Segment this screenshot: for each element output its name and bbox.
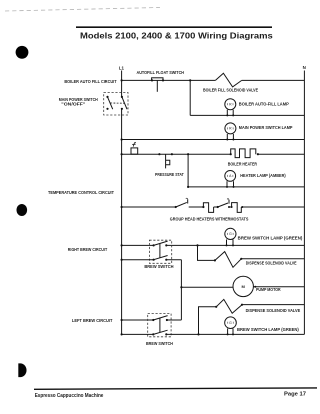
wire row D [122,153,305,155]
junction row D riser [187,153,189,155]
wire dispense left to N [242,304,304,306]
hole punch 1 [16,46,29,59]
boiler heater element [231,149,256,158]
svg-text:G: G [229,321,232,325]
pressure stat [158,153,173,168]
wire row G2 [122,259,182,261]
junction dispense left [197,333,199,335]
svg-text:BREW SWITCH LAMP (GREEN): BREW SWITCH LAMP (GREEN) [237,327,299,332]
svg-text:N: N [303,65,306,70]
svg-text:BOILER AUTO FILL CIRCUIT: BOILER AUTO FILL CIRCUIT [64,79,117,84]
main power switch left pole [106,96,112,110]
svg-text:MAIN POWER SWITCH LAMP: MAIN POWER SWITCH LAMP [239,125,293,130]
svg-text:G: G [229,232,232,236]
group head heater 2 [232,203,242,213]
svg-text:A: A [229,174,232,178]
thermal limit square [131,142,138,154]
svg-text:L1: L1 [119,66,125,71]
svg-text:R: R [229,127,232,131]
wire row C [122,139,305,141]
group head heater 1 [203,203,213,213]
svg-text:TEMPERATURE CONTROL CIRCUIT: TEMPERATURE CONTROL CIRCUIT [48,190,114,195]
junction row A riser [189,79,191,81]
lamp brew switch left green [225,317,237,329]
brew switch 1 top pole [153,241,168,246]
group thermostat switch 1 [175,198,188,208]
lamp brew switch right legs [227,240,234,246]
wire row H pump [181,286,304,288]
brew switch 1 box [149,240,171,263]
junction dispense right [196,244,198,246]
heater lamp legs [227,181,234,187]
svg-text:Page 17: Page 17 [284,392,306,398]
svg-text:RIGHT BREW CIRCUIT: RIGHT BREW CIRCUIT [68,247,108,252]
brew switch 2 box [148,314,171,337]
lamp inner ticks [228,103,234,324]
brew switch 1 link [159,243,161,257]
lamp brew switch right green [225,228,236,239]
title rule [76,26,272,28]
svg-text:DISPENSE SOLENOID VALVE: DISPENSE SOLENOID VALVE [246,261,297,266]
pump motor [233,276,253,296]
hole punch 2 [17,204,28,216]
wire dispense right branch [198,245,215,260]
dispense solenoid valve right zigzag [215,252,241,268]
svg-text:HEATER LAMP (AMBER): HEATER LAMP (AMBER) [240,173,286,178]
lamp boiler auto-fill legs [227,110,233,116]
lamp boiler auto-fill [225,99,236,110]
svg-text:BREW SWITCH: BREW SWITCH [146,341,173,346]
wire dispense right to N [241,258,304,260]
svg-text:R: R [229,103,232,107]
node L1 rail [121,71,123,335]
brew switch 2 link [159,318,161,333]
page top dashed separator [5,8,160,12]
hole punch 3 [18,363,26,377]
svg-text:Models 2100, 2400 & 1700 Wirin: Models 2100, 2400 & 1700 Wiring Diagrams [80,31,273,41]
svg-text:BREW SWITCH LAMP (GREEN): BREW SWITCH LAMP (GREEN) [238,235,303,240]
svg-text:"ON/OFF": "ON/OFF" [61,102,85,107]
svg-text:Espresso Cappuccino Machine: Espresso Cappuccino Machine [35,393,104,399]
autofill float switch [151,78,164,92]
main power switch right pole [121,96,127,110]
main power switch link [110,102,124,104]
svg-text:BOILER AUTO-FILL LAMP: BOILER AUTO-FILL LAMP [239,102,289,107]
svg-text:PUMP MOTOR: PUMP MOTOR [256,287,281,292]
boiler fill solenoid valve zigzag [215,73,241,87]
svg-text:LEFT BREW CIRCUIT: LEFT BREW CIRCUIT [72,318,113,323]
wire row A boiler auto fill circuit [122,79,305,81]
wire rail E group heaters [122,206,305,208]
svg-text:BOILER FILL SOLENOID VALVE: BOILER FILL SOLENOID VALVE [203,88,258,93]
wire row J2 [122,333,305,335]
svg-text:BOILER HEATER: BOILER HEATER [228,162,257,167]
wire row J1 left brew feed [122,319,182,321]
wire row G1 right brew feed [122,244,305,246]
svg-text:GROUP HEAD HEATERS W/THERMOSTA: GROUP HEAD HEATERS W/THERMOSTATS [170,217,249,222]
node N rail [303,71,305,335]
brew switch 2 bottom pole [152,330,167,335]
wire riser rowD to rowF [187,154,189,187]
wire row F [188,186,304,188]
lamp main power switch legs [227,134,233,140]
lamp brew switch left legs [228,329,233,335]
svg-text:BREW SWITCH: BREW SWITCH [144,264,173,269]
wire riser G2 to J1 [180,260,182,320]
lamp main power switch [225,123,236,134]
footer rule [34,388,317,389]
svg-text:M: M [242,284,246,289]
main power switch box [104,93,128,116]
brew switch 1 bottom pole [153,256,168,261]
wire row B [190,114,304,116]
svg-text:DISPENSE SOLENOID VALVE: DISPENSE SOLENOID VALVE [246,308,301,313]
brew switch 2 top pole [152,316,168,322]
wire dispense left branch [199,307,217,335]
svg-text:AUTOFILL FLOAT SWITCH: AUTOFILL FLOAT SWITCH [137,70,185,75]
dispense solenoid valve left zigzag [216,299,242,313]
group thermostat switch 2 [217,199,230,208]
wire riser rowA to rowB [189,80,191,115]
heater lamp amber [225,171,236,182]
svg-text:PRESSURE STAT: PRESSURE STAT [155,172,184,177]
